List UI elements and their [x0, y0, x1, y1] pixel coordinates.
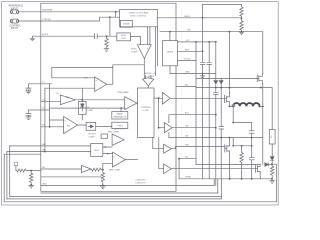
- driver tri 3: [164, 144, 172, 153]
- svg-text:LT3575/76: LT3575/76: [136, 182, 147, 184]
- fet1: [225, 93, 230, 107]
- svg-text:COMP: COMP: [88, 136, 95, 138]
- wire 145.8: [233, 138, 252, 146]
- vertical 158.6: [158, 98, 160, 128]
- diode D3 horizontal: [265, 163, 268, 167]
- gnd 272: [270, 181, 275, 184]
- wire 164.5 to D3: [196, 164, 260, 166]
- svg-text:PWM LAMP: PWM LAMP: [117, 91, 129, 94]
- svg-text:GENERATOR: GENERATOR: [113, 116, 126, 119]
- svg-text:INPUT: INPUT: [11, 8, 18, 10]
- rc arrow: [88, 125, 93, 128]
- svg-text:-: -: [96, 87, 97, 91]
- svg-text:LW: LW: [185, 135, 188, 137]
- cap under D1: [214, 92, 218, 94]
- ramp gen box: [112, 112, 128, 120]
- control logic box: [138, 88, 155, 138]
- small tri EA2a: [60, 95, 75, 105]
- wire cap to osc box: [97, 35, 117, 37]
- svg-text:CTRL/SS: CTRL/SS: [42, 19, 51, 21]
- ext resistor network: [16, 169, 31, 172]
- svg-text:MIN COMP: MIN COMP: [109, 170, 120, 172]
- res 272: [271, 166, 274, 181]
- wire up from res node: [103, 163, 113, 169]
- svg-text:PWM: PWM: [117, 126, 122, 128]
- inner box lines: [52, 68, 113, 78]
- diode D1: [214, 81, 218, 84]
- resistor vertical 103.8: [101, 170, 104, 186]
- IC boundary: [41, 3, 176, 191]
- xor gate: [143, 78, 154, 86]
- page border: [2, 1, 279, 205]
- svg-text:RC RST: RC RST: [88, 134, 96, 136]
- wire sync out: [143, 59, 145, 79]
- pwm comp tri: [125, 97, 137, 110]
- wire MODE pin: [32, 35, 94, 37]
- cap out2: [249, 157, 254, 160]
- svg-text:VIN: VIN: [187, 30, 191, 32]
- driver pin wires: [178, 41, 216, 43]
- svg-text:MUX: MUX: [94, 150, 99, 152]
- diode D4: [270, 144, 274, 160]
- top rail wire: [203, 3, 242, 5]
- bottom rails: [41, 184, 214, 186]
- driver tri 4: [164, 164, 172, 174]
- svg-text:DRIVE: DRIVE: [167, 51, 174, 53]
- svg-text:CONTROL: CONTROL: [9, 26, 21, 28]
- min comp tri: [112, 134, 124, 145]
- cap out1: [249, 131, 254, 133]
- EA1 out: [107, 65, 145, 85]
- svg-text:GTB: GTB: [83, 78, 88, 80]
- buffer tri: [81, 165, 91, 172]
- svg-text:OSC: OSC: [121, 38, 126, 40]
- divider resistor top: [240, 4, 243, 17]
- sense box 0.1: [269, 130, 275, 145]
- svg-text:SW: SW: [185, 126, 188, 128]
- wire out cap top: [233, 106, 252, 130]
- svg-text:RAMP: RAMP: [117, 113, 124, 116]
- wire junction fb drop: [115, 12, 117, 17]
- long gate wire fet4: [171, 168, 255, 170]
- wire CTRL pin: [19, 17, 120, 21]
- svg-text:SGT: SGT: [185, 145, 190, 147]
- rail 202.6: [202, 4, 204, 178]
- pwm latch comp tri big: [113, 152, 126, 167]
- gnd 103.8: [100, 186, 105, 189]
- svg-text:GND: GND: [42, 183, 47, 185]
- reference input connector: [10, 10, 19, 14]
- left pin wires mid: [28, 83, 51, 85]
- wire mode ground stub: [31, 36, 33, 38]
- svg-text:MODE: MODE: [42, 34, 49, 36]
- svg-text:COMP: COMP: [87, 110, 94, 112]
- ext timing cap: [26, 110, 31, 117]
- SW node wire: [196, 88, 272, 130]
- gnd 31: [29, 185, 34, 188]
- driver gnd step: [170, 66, 216, 74]
- driver tri top: [162, 92, 170, 104]
- driver box: [163, 41, 178, 66]
- cv diode: [81, 103, 84, 111]
- svg-text:DELAY: DELAY: [123, 23, 130, 26]
- ext cap on CT: [26, 84, 31, 91]
- capacitor mode: [95, 34, 98, 39]
- svg-text:LOGIC: LOGIC: [142, 110, 149, 112]
- bottom right verticals: [214, 179, 221, 199]
- divider resistor bottom: [240, 18, 243, 31]
- svg-text:-: -: [65, 130, 66, 134]
- left wrap horizontals into mux: [4, 146, 91, 154]
- svg-text:CM: CM: [66, 97, 70, 99]
- cv comp box: [79, 101, 87, 114]
- svg-text:+: +: [147, 46, 149, 50]
- ground mode: [30, 38, 35, 40]
- gnd ext CT cap: [26, 91, 31, 94]
- wire 158.7: [179, 158, 196, 160]
- tri EA2: [64, 116, 78, 133]
- svg-text:SHDNC = S: SHDNC = S: [144, 73, 156, 75]
- cap rail209: [207, 62, 211, 64]
- cap rail 221: [220, 88, 222, 127]
- wires clkbox down to sync: [148, 27, 158, 76]
- svg-text:INPUT: INPUT: [11, 28, 18, 30]
- svg-text:REFERENCE: REFERENCE: [9, 6, 24, 8]
- svg-text:CONTROL: CONTROL: [141, 107, 152, 109]
- left wrap verticals: [4, 146, 10, 202]
- svg-text:FB/SENSE: FB/SENSE: [42, 10, 53, 12]
- fet4: [255, 165, 260, 179]
- resistor horizontal: [91, 168, 102, 171]
- resistor mode: [105, 36, 108, 48]
- bottom rail 178.8: [179, 178, 272, 180]
- ref small box: [101, 134, 107, 138]
- gnd ext cap: [26, 117, 31, 120]
- big EA1: [95, 77, 107, 92]
- rc comp box: [86, 122, 96, 130]
- wire osc to sync comp: [131, 37, 141, 45]
- rail 262.8 mid: [262, 84, 264, 165]
- rail 215.8 upper: [215, 42, 217, 81]
- rail 209.2: [208, 42, 210, 179]
- BMOD wire: [157, 17, 241, 19]
- svg-text:SYNC CONTROL: SYNC CONTROL: [130, 15, 147, 17]
- gnd rail202: [200, 74, 205, 79]
- diode D2: [219, 78, 223, 83]
- svg-text:PG: PG: [185, 157, 188, 159]
- res 241.6: [240, 146, 243, 179]
- wire xor out: [147, 86, 149, 88]
- rail 196: [195, 42, 197, 165]
- mux box: [91, 144, 103, 157]
- right loop wire: [272, 164, 277, 202]
- svg-text:BMOD: BMOD: [184, 16, 191, 18]
- svg-text:COMP: COMP: [131, 52, 138, 54]
- rail 229.4 vin tap: [228, 32, 230, 88]
- wires around cv: [50, 88, 125, 126]
- faint pgnd wire: [41, 176, 101, 178]
- pwm det box: [112, 122, 128, 128]
- wire drop to mode row: [109, 17, 111, 36]
- stub to driver box: [169, 32, 171, 41]
- svg-text:SYNC: SYNC: [121, 35, 127, 37]
- svg-text:SYNC: SYNC: [131, 49, 137, 51]
- svg-text:BG: BG: [185, 84, 188, 86]
- VIN wire: [160, 32, 263, 74]
- inner verticals: [45, 84, 50, 152]
- inductor: [233, 103, 259, 106]
- svg-text:-: -: [113, 164, 114, 168]
- wires mux to tris: [103, 147, 113, 154]
- gate wire fet2: [196, 77, 257, 79]
- svg-text:+ (A)+ B: + (A)+ B: [146, 75, 154, 78]
- wire FB pin: [19, 11, 120, 13]
- svg-text:1.5MHz CLOCK AND: 1.5MHz CLOCK AND: [129, 11, 149, 14]
- osc box: [117, 33, 131, 41]
- svg-text:LT3573/74: LT3573/74: [136, 180, 147, 182]
- fet3: [225, 138, 230, 179]
- svg-text:PGND: PGND: [185, 177, 192, 179]
- sync comp triangle (down): [137, 45, 151, 59]
- ground mode res: [104, 49, 109, 52]
- svg-text:GND: GND: [185, 71, 190, 73]
- svg-text:MIN COMP: MIN COMP: [108, 132, 119, 134]
- svg-text:DETECTOR: DETECTOR: [114, 128, 126, 130]
- driver tri 2: [164, 123, 172, 133]
- delay sub-box: [121, 20, 133, 27]
- pin wires right stack: [176, 86, 196, 88]
- divider ground: [239, 32, 244, 35]
- cap rail202: [200, 62, 204, 64]
- control input connector: [10, 19, 19, 23]
- fet2 top right: [257, 73, 262, 83]
- xor inputs: [146, 76, 151, 79]
- svg-text:TGOUT: TGOUT: [184, 59, 190, 61]
- clock box: [120, 9, 158, 26]
